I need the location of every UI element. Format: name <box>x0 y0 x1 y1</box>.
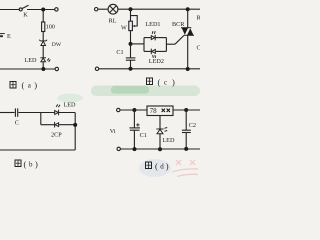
svg-text:C1: C1 <box>116 49 123 56</box>
wire: (a) top rail mid segment <box>27 9 55 11</box>
wire: C1 branch (d) <box>133 110 135 128</box>
LED (a) <box>40 58 50 62</box>
wire: lamp to triac top <box>118 8 200 10</box>
wire: C2 branch <box>185 110 187 130</box>
wire: LED to bottom rail (d) <box>159 134 161 150</box>
wire: zener to LED <box>42 46 44 58</box>
svg-text:LED1: LED1 <box>145 21 160 28</box>
svg-text:(: ( <box>158 77 161 87</box>
svg-text:LED: LED <box>64 102 77 109</box>
wire: junction to LED block <box>133 43 145 45</box>
red watermark marks bottom-right <box>172 160 198 177</box>
battery E at left edge <box>0 34 5 37</box>
node: (b) junction <box>73 123 77 127</box>
node: (c) C1 junction <box>129 42 133 46</box>
wire: (a) branch top <box>42 10 44 23</box>
svg-text:LED: LED <box>162 137 175 144</box>
wire: junction to pot <box>130 9 132 21</box>
node: (a) bottom junction <box>41 67 45 71</box>
svg-text:c: c <box>164 79 167 87</box>
svg-text:78: 78 <box>150 107 158 115</box>
wire: resistor to zener <box>42 32 44 42</box>
node: (d) bottom C1 junction <box>133 147 137 151</box>
svg-text:(: ( <box>155 161 158 171</box>
potentiometer W <box>129 21 133 30</box>
capacitor C1 (d) electrolytic <box>129 127 140 129</box>
svg-text:(: ( <box>24 159 27 169</box>
regulator 78xx box <box>147 106 173 116</box>
node: (c) bottom triac junction <box>186 67 190 71</box>
svg-text:C1: C1 <box>140 132 147 139</box>
svg-text:): ) <box>35 159 38 169</box>
svg-text:Vi: Vi <box>110 128 116 135</box>
wire: C2 to bottom rail <box>185 133 187 150</box>
wire: (d) bottom rail <box>120 148 200 150</box>
green watermark band top-right area <box>91 86 200 97</box>
wire: triac bottom lead <box>187 35 189 69</box>
wire: LED to right vertical <box>59 112 75 114</box>
wire: cap to split <box>19 112 55 114</box>
node: (a) top junction <box>41 8 45 12</box>
svg-text:RL: RL <box>109 18 117 25</box>
wire: LED2 to right vertical <box>156 50 167 52</box>
svg-text:100: 100 <box>46 23 55 30</box>
terminal: (a) top output <box>55 8 58 11</box>
wire: (b) split vertical <box>40 113 42 125</box>
svg-text:K: K <box>23 12 28 19</box>
svg-text:LED2: LED2 <box>149 58 164 65</box>
svg-text:C: C <box>15 120 19 127</box>
wire: (b) right vertical <box>74 113 76 151</box>
terminal: (a) bottom output <box>55 67 58 70</box>
svg-text:(: ( <box>22 80 25 90</box>
LED (b) <box>55 104 60 115</box>
svg-text:C2: C2 <box>189 122 196 129</box>
svg-text:BCR: BCR <box>172 21 185 28</box>
capacitor C <box>14 108 16 116</box>
wire: 2CP to junction <box>59 124 75 126</box>
wire: pot wiper loop <box>131 16 138 26</box>
zener DW <box>39 40 47 46</box>
wire: C1 to bottom rail <box>130 60 132 69</box>
node: (d) C1 top junction <box>132 108 136 112</box>
wire: LED1 to right vertical <box>156 37 167 39</box>
wire: (b) top rail to cap <box>0 112 15 114</box>
wire: (a) top rail left segment <box>0 9 19 11</box>
lamp RL <box>108 4 118 14</box>
blue watermark swirl bottom-right <box>139 159 171 177</box>
wire: (a) bottom rail <box>0 68 55 70</box>
wire: triac gate diagonal <box>175 35 184 44</box>
svg-text:LED: LED <box>25 57 38 64</box>
terminal: (d) bottom input <box>117 147 120 150</box>
LED1 <box>151 31 155 40</box>
LED2 <box>151 49 155 58</box>
caption 图(a) <box>10 80 37 90</box>
wire: block to triac gate <box>166 43 175 45</box>
wire: triac top lead <box>187 9 189 28</box>
svg-text:E: E <box>7 33 11 40</box>
wire: pot to C1 junction <box>130 31 132 58</box>
caption 图(b) <box>15 159 38 169</box>
node: (c) pot junction <box>129 7 133 11</box>
svg-text:): ) <box>172 77 175 87</box>
wire: (b) bottom branch <box>41 124 55 126</box>
caption 图(d) <box>146 161 169 171</box>
svg-text:2CP: 2CP <box>51 132 62 139</box>
LED (d) <box>156 128 167 134</box>
svg-text:DW: DW <box>52 42 62 48</box>
wire: (d) top rail left <box>120 109 147 111</box>
node: (d) bottom C2 junction <box>184 147 188 151</box>
wire: LED block left vertical <box>143 38 145 52</box>
resistor 100 <box>42 22 45 32</box>
svg-text:b: b <box>29 161 33 169</box>
caption 图(c) <box>147 77 176 87</box>
svg-text:d: d <box>160 163 164 171</box>
wire: LED block right vertical <box>165 38 167 52</box>
capacitor C2 <box>182 129 191 131</box>
triac BCR <box>181 28 194 36</box>
switch K <box>19 8 22 11</box>
wire: LED1 branch <box>144 37 151 39</box>
wire: (b) bottom rail <box>0 149 75 151</box>
capacitor C1 (c) <box>126 57 136 59</box>
diode 2CP <box>55 122 59 128</box>
node: (c) triac top junction <box>186 7 190 11</box>
node: (d) bottom LED junction <box>158 147 162 151</box>
svg-text:): ) <box>34 80 37 90</box>
wire: LED to bottom rail <box>42 62 44 69</box>
terminal: (c) bottom input <box>95 67 98 70</box>
svg-text:): ) <box>166 161 169 171</box>
svg-text:R: R <box>197 15 201 22</box>
wire: (c) bottom rail <box>99 68 200 70</box>
node: (c) bottom C1 junction <box>129 67 133 71</box>
wire: C1 to bottom rail (d) <box>133 130 135 149</box>
node: (d) C2 top junction <box>184 108 188 112</box>
terminal: (d) top input <box>117 108 120 111</box>
wire: regulator mid pin <box>159 116 161 129</box>
wire: terminal to lamp <box>98 8 108 10</box>
svg-text:C: C <box>197 45 201 52</box>
wire: LED2 branch <box>144 50 151 52</box>
svg-text:W: W <box>121 25 127 32</box>
wire: (d) top rail right <box>173 109 200 111</box>
terminal: (c) top input <box>95 8 98 11</box>
